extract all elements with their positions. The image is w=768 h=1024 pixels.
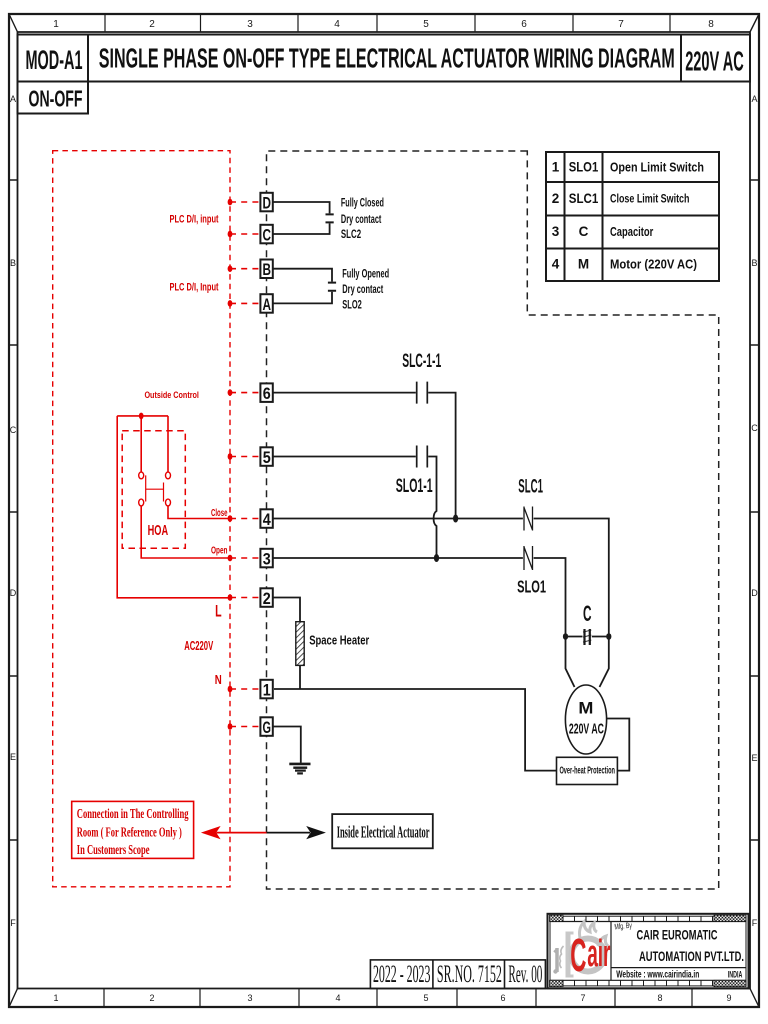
svg-text:INDIA: INDIA bbox=[728, 970, 743, 980]
svg-text:Inside Electrical Actuator: Inside Electrical Actuator bbox=[337, 823, 430, 842]
svg-text:220V AC: 220V AC bbox=[569, 721, 604, 738]
svg-text:AUTOMATION PVT.LTD.: AUTOMATION PVT.LTD. bbox=[639, 948, 744, 964]
svg-text:G: G bbox=[262, 718, 271, 737]
svg-text:7: 7 bbox=[618, 19, 624, 30]
svg-text:C: C bbox=[10, 425, 17, 435]
svg-text:Fully Closed: Fully Closed bbox=[341, 198, 384, 210]
svg-text:Room ( For Reference Only ): Room ( For Reference Only ) bbox=[77, 825, 182, 840]
svg-text:PLC D/I, Input: PLC D/I, Input bbox=[170, 282, 219, 294]
svg-text:F: F bbox=[752, 918, 758, 928]
svg-text:Website : www.cairindia.in: Website : www.cairindia.in bbox=[616, 969, 699, 980]
svg-text:3: 3 bbox=[247, 19, 253, 30]
svg-text:SLO1: SLO1 bbox=[517, 577, 546, 597]
svg-text:C: C bbox=[570, 929, 586, 981]
svg-text:1: 1 bbox=[53, 993, 58, 1003]
svg-text:6: 6 bbox=[521, 19, 527, 30]
svg-text:8: 8 bbox=[708, 19, 714, 30]
svg-text:B: B bbox=[262, 260, 271, 279]
svg-text:B: B bbox=[751, 258, 757, 268]
svg-text:N: N bbox=[215, 672, 222, 687]
svg-text:In Customers Scope: In Customers Scope bbox=[77, 843, 150, 858]
svg-text:SLC-1-1: SLC-1-1 bbox=[402, 351, 441, 372]
svg-text:MOD-A1: MOD-A1 bbox=[26, 45, 83, 75]
svg-text:Space Heater: Space Heater bbox=[309, 633, 369, 648]
svg-text:Rev. 00: Rev. 00 bbox=[508, 961, 542, 988]
svg-text:4: 4 bbox=[334, 19, 340, 30]
svg-text:E: E bbox=[10, 752, 16, 762]
svg-text:5: 5 bbox=[263, 448, 271, 467]
svg-text:5: 5 bbox=[423, 19, 429, 30]
svg-text:2022 - 2023: 2022 - 2023 bbox=[373, 961, 431, 988]
svg-text:Dry contact: Dry contact bbox=[341, 214, 382, 226]
svg-text:A: A bbox=[262, 295, 271, 314]
svg-text:B: B bbox=[10, 258, 16, 268]
svg-text:3: 3 bbox=[247, 993, 252, 1003]
svg-text:SLC1: SLC1 bbox=[518, 477, 543, 498]
svg-text:A: A bbox=[10, 94, 16, 104]
svg-text:C: C bbox=[262, 225, 271, 244]
svg-text:C: C bbox=[579, 224, 589, 239]
svg-text:Outside Control: Outside Control bbox=[144, 390, 199, 401]
svg-text:SLO2: SLO2 bbox=[342, 298, 362, 312]
svg-text:SLO1: SLO1 bbox=[569, 160, 599, 175]
svg-text:9: 9 bbox=[726, 993, 731, 1003]
svg-text:5: 5 bbox=[423, 993, 428, 1003]
svg-text:Motor (220V AC): Motor (220V AC) bbox=[610, 257, 697, 272]
svg-text:SLO1-1: SLO1-1 bbox=[396, 475, 433, 497]
svg-text:4: 4 bbox=[552, 257, 560, 272]
svg-text:7: 7 bbox=[580, 993, 585, 1003]
svg-text:2: 2 bbox=[149, 19, 155, 30]
svg-text:1: 1 bbox=[552, 160, 560, 175]
svg-text:D: D bbox=[262, 193, 271, 212]
svg-text:C: C bbox=[751, 423, 758, 433]
svg-text:SLC1: SLC1 bbox=[569, 191, 599, 206]
svg-text:3: 3 bbox=[552, 224, 560, 239]
svg-text:M: M bbox=[578, 257, 589, 272]
svg-text:Open: Open bbox=[211, 546, 228, 557]
svg-text:M: M bbox=[578, 699, 593, 718]
svg-text:Close Limit Switch: Close Limit Switch bbox=[610, 192, 690, 206]
svg-text:C: C bbox=[583, 601, 592, 626]
svg-text:Fully Opened: Fully Opened bbox=[342, 268, 389, 280]
svg-text:PLC D/I, input: PLC D/I, input bbox=[170, 214, 219, 226]
svg-text:4: 4 bbox=[335, 993, 340, 1003]
svg-text:1: 1 bbox=[53, 19, 59, 30]
svg-text:2: 2 bbox=[149, 993, 154, 1003]
svg-text:Over-heat Protection: Over-heat Protection bbox=[559, 765, 615, 776]
svg-text:AC220V: AC220V bbox=[184, 638, 213, 653]
svg-text:SINGLE PHASE ON-OFF TYPE ELECT: SINGLE PHASE ON-OFF TYPE ELECTRICAL ACTU… bbox=[99, 42, 675, 73]
svg-text:3: 3 bbox=[263, 549, 271, 568]
svg-text:220V AC: 220V AC bbox=[685, 46, 744, 77]
svg-text:1: 1 bbox=[263, 680, 271, 699]
svg-text:8: 8 bbox=[657, 993, 662, 1003]
svg-text:Capacitor: Capacitor bbox=[610, 224, 653, 239]
svg-text:6: 6 bbox=[263, 384, 271, 403]
svg-text:D: D bbox=[751, 588, 758, 598]
svg-text:ON-OFF: ON-OFF bbox=[29, 86, 83, 112]
svg-text:2: 2 bbox=[552, 191, 560, 206]
svg-text:Close: Close bbox=[211, 508, 228, 519]
svg-text:CAIR EUROMATIC: CAIR EUROMATIC bbox=[637, 927, 718, 943]
svg-text:SLC2: SLC2 bbox=[341, 227, 361, 241]
svg-text:A: A bbox=[751, 94, 757, 104]
svg-text:Connection in The Controlling: Connection in The Controlling bbox=[77, 807, 189, 822]
svg-text:6: 6 bbox=[500, 993, 505, 1003]
svg-text:air: air bbox=[587, 933, 610, 975]
svg-text:E: E bbox=[751, 753, 757, 763]
svg-text:Open Limit Switch: Open Limit Switch bbox=[610, 160, 704, 175]
svg-text:Mfg. By: Mfg. By bbox=[614, 921, 632, 932]
svg-text:F: F bbox=[10, 918, 16, 928]
svg-text:2: 2 bbox=[263, 589, 271, 608]
svg-text:4: 4 bbox=[263, 510, 271, 529]
svg-text:D: D bbox=[10, 588, 17, 598]
svg-text:HOA: HOA bbox=[148, 522, 169, 539]
svg-text:Dry contact: Dry contact bbox=[342, 284, 383, 296]
svg-text:L: L bbox=[215, 602, 222, 621]
svg-text:SR.NO. 7152: SR.NO. 7152 bbox=[437, 961, 502, 988]
